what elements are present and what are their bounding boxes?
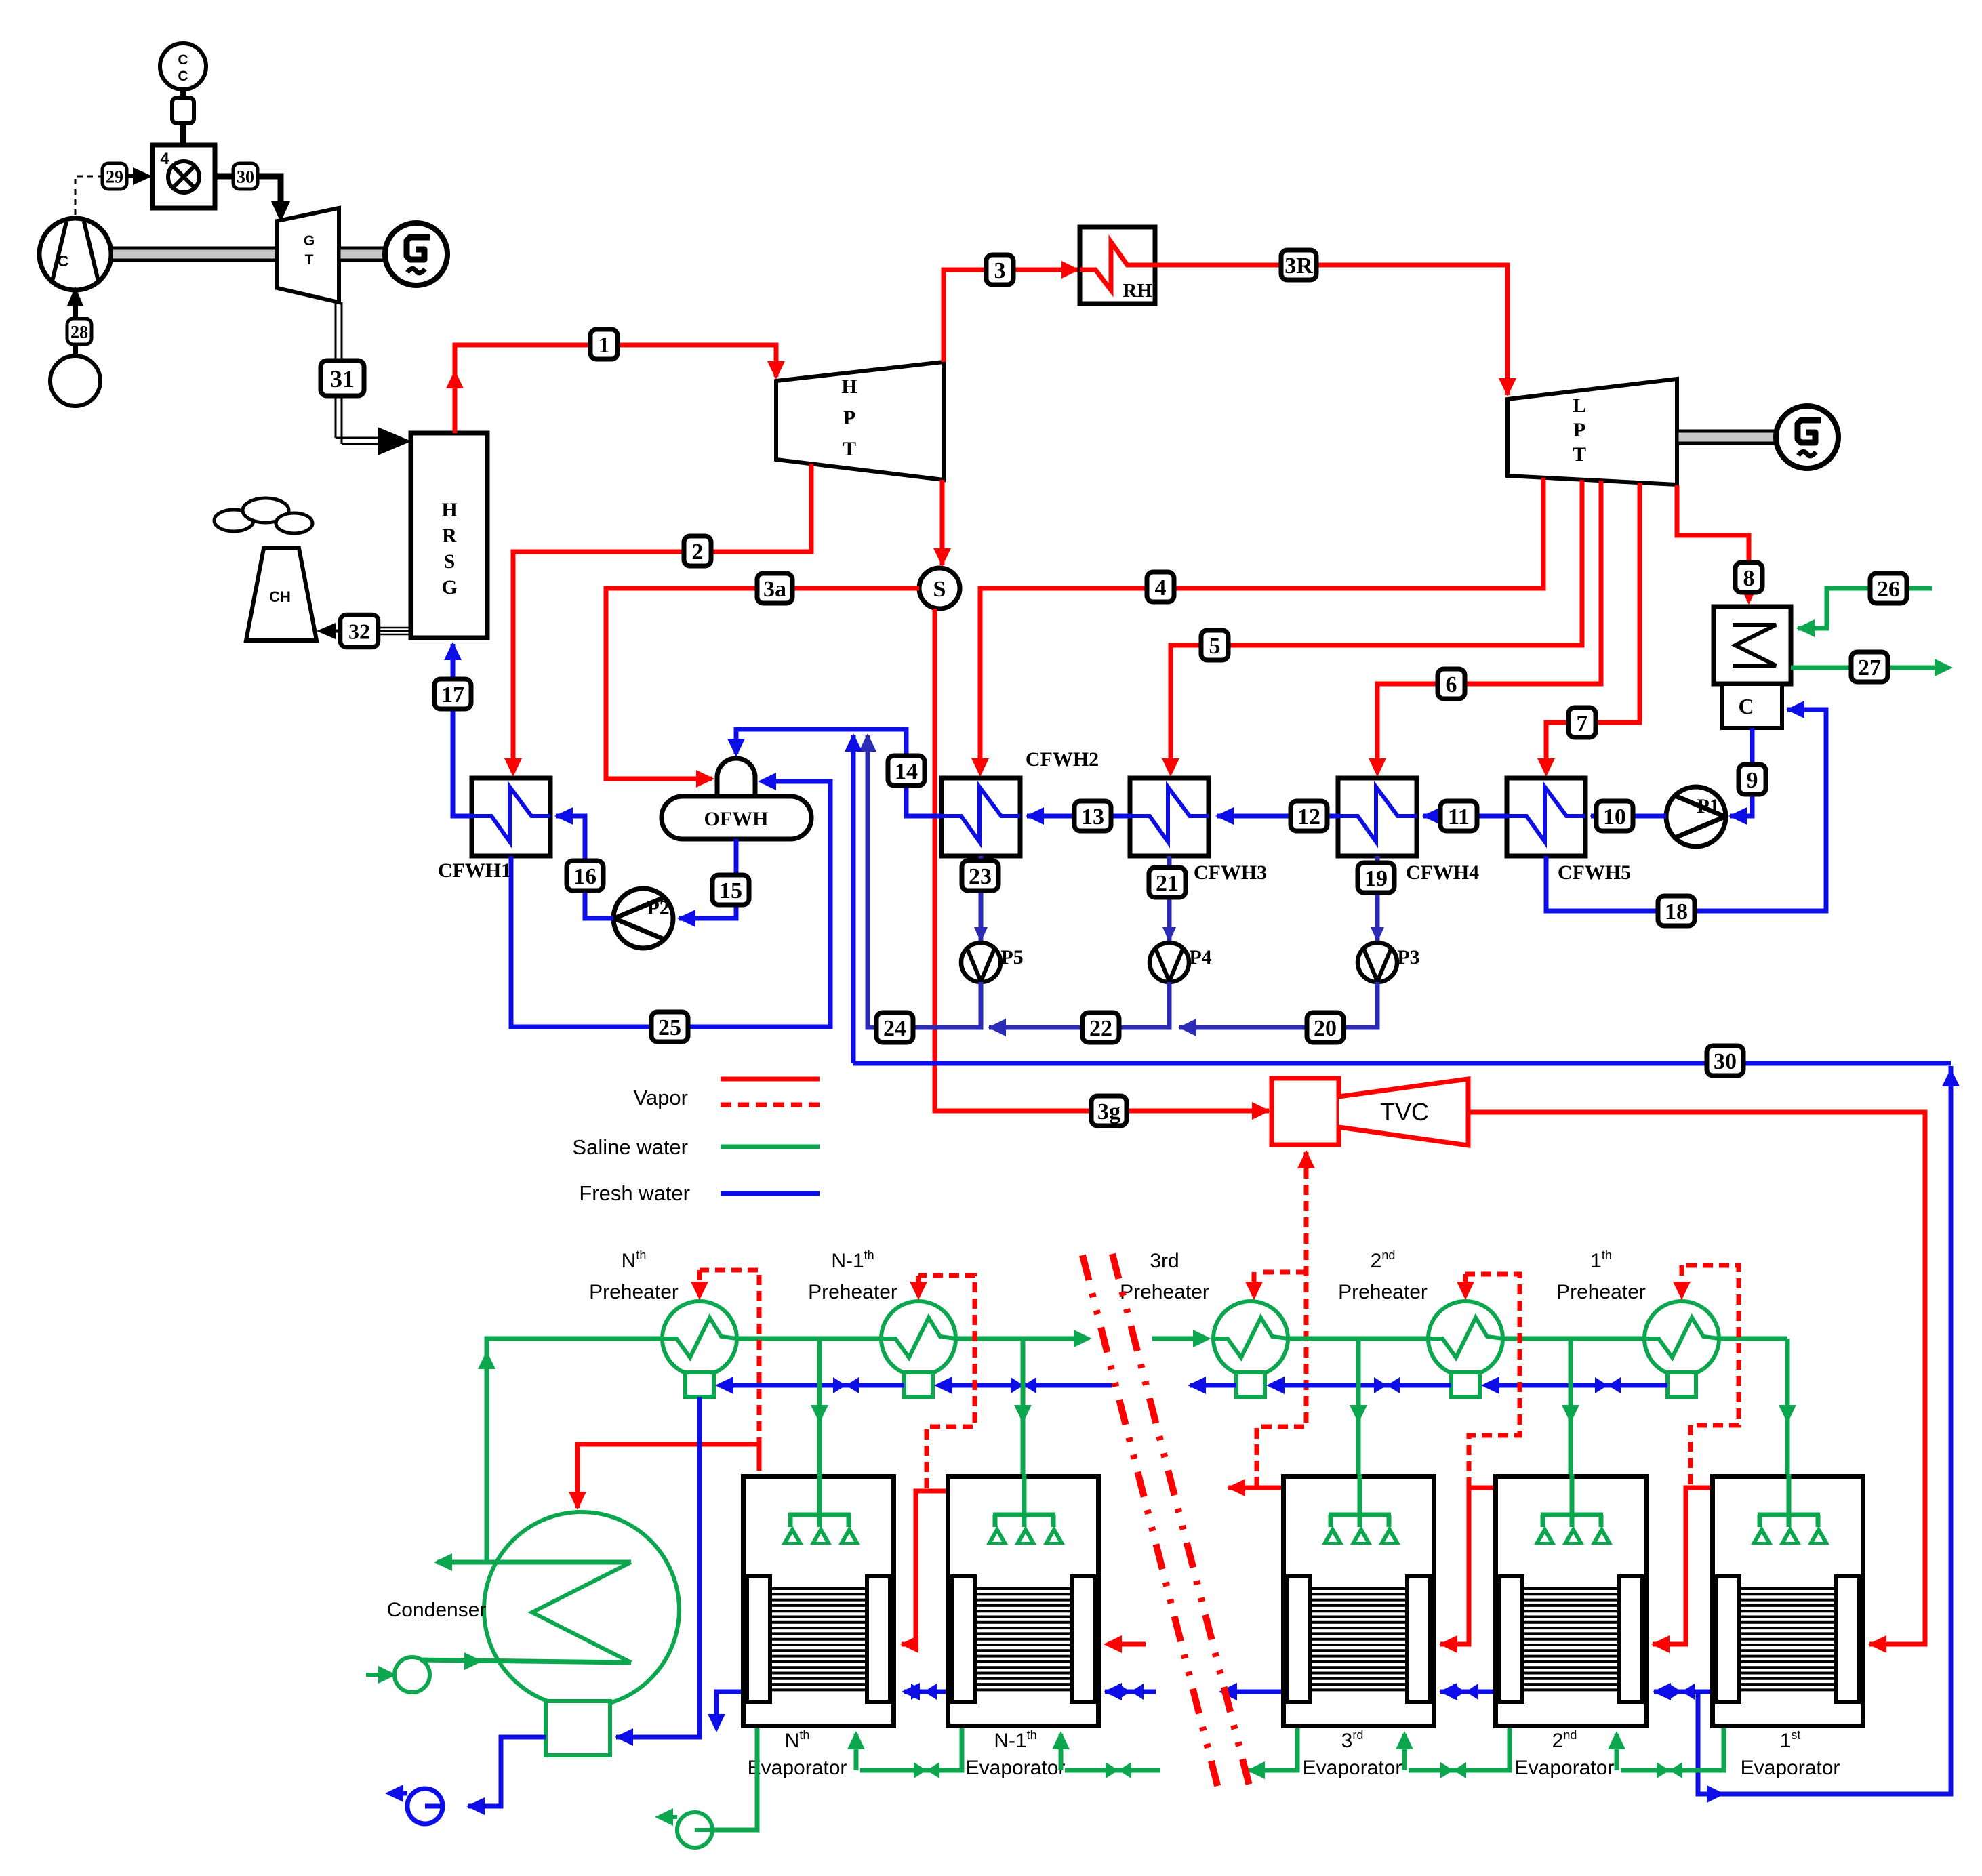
wire P3 to line 20 (1179, 982, 1377, 1027)
svg-text:C: C (178, 52, 188, 68)
svg-text:3rd: 3rd (1150, 1250, 1179, 1272)
arrow into CFWH1 (504, 758, 522, 777)
wire LPT extraction stream 4 (980, 478, 1543, 773)
arrow into OFWH dome (696, 770, 714, 788)
svg-text:13: 13 (1081, 804, 1104, 830)
arrow into CFWH1 (554, 807, 573, 825)
heat exchanger 1st preheater (1644, 1301, 1719, 1376)
svg-text:C: C (58, 252, 69, 270)
condenser neck (546, 1701, 610, 1755)
node 5 (1201, 630, 1228, 660)
node 6 (1438, 669, 1465, 699)
flow arrow seawater right (1074, 1330, 1092, 1347)
svg-text:TVC: TVC (1380, 1098, 1429, 1126)
svg-text:16: 16 (573, 864, 596, 889)
arrow into 3rd preheater (1245, 1282, 1263, 1300)
wire distillate 1st preheater to 2nd preheater (1485, 1383, 1667, 1388)
node 1 (590, 329, 618, 359)
svg-text:R: R (442, 525, 457, 547)
vessel Nth evaporator (744, 1474, 894, 1726)
svg-text:CFWH2: CFWH2 (1026, 748, 1099, 771)
svg-text:P3: P3 (1397, 946, 1419, 968)
svg-text:9: 9 (1747, 768, 1758, 793)
node 12 (1291, 801, 1327, 831)
break line 2 (1112, 1254, 1251, 1793)
wire dashed vapor to N-1th preheater (918, 1276, 975, 1488)
generator G2 (1776, 406, 1838, 468)
wire OFWH to P2 (stream 15) (679, 839, 736, 918)
svg-text:10: 10 (1603, 804, 1626, 830)
gas turbine GT (277, 208, 339, 302)
legend (721, 1077, 820, 1082)
wire feed to Nth evaporator (817, 1339, 822, 1474)
arrow into CFWH3 (1215, 807, 1234, 825)
svg-text:C: C (1738, 694, 1754, 718)
arrow into OFWH dome top (727, 739, 745, 757)
arrow into S (933, 548, 951, 567)
svg-text:12: 12 (1297, 804, 1320, 830)
arrow into RH (1061, 261, 1080, 279)
wire stream 30 return riser (853, 1061, 1951, 1066)
svg-text:2: 2 (692, 539, 704, 565)
arrow into neck (615, 1728, 633, 1746)
vessel 3rd evaporator (1284, 1474, 1434, 1726)
wire stub at 3rd preheater (1213, 1337, 1225, 1341)
wire vapor from break to N-1th evap (1108, 1642, 1146, 1647)
vessel 1st evaporator (1713, 1474, 1863, 1726)
wire feed to 2nd evaporator (1569, 1339, 1573, 1474)
svg-text:CFWH4: CFWH4 (1406, 861, 1479, 884)
valve box 4 with circle-X (153, 145, 215, 208)
svg-text:3: 3 (994, 258, 1006, 283)
combustion chamber CC circle (160, 43, 206, 89)
node 3R (1281, 250, 1316, 280)
svg-text:OFWH: OFWH (704, 808, 769, 830)
stack gas double line HRSG to CH (node 32) (378, 627, 411, 629)
svg-text:6: 6 (1446, 672, 1457, 697)
svg-text:4: 4 (1155, 575, 1167, 600)
pump P5 (961, 943, 1000, 982)
wire HPT to RH (stream 3) (944, 270, 1078, 362)
node 14 (888, 756, 925, 786)
wire seawater Nth to N-1th preheater (725, 1337, 893, 1341)
arrow into valve box (127, 174, 136, 178)
OFWH vessel (717, 758, 755, 798)
node 15 (712, 875, 749, 905)
wire cooling reject out (437, 1560, 631, 1565)
node 7 (1569, 708, 1596, 737)
LPT turbine (1508, 379, 1677, 485)
arrow into hotwell C (1786, 701, 1804, 718)
svg-text:25: 25 (658, 1015, 681, 1040)
intake arrow (378, 1666, 397, 1684)
wire vapor N-1th evap to Nth evap (902, 1491, 946, 1644)
wire brine blowdown from Nth evap (714, 1728, 757, 1830)
valve (1669, 1684, 1695, 1700)
node 2 (684, 536, 711, 566)
TVC ejector (1272, 1078, 1339, 1145)
wire distillate from Nth evap joining (716, 1692, 741, 1728)
wire valve box to GT inlet (215, 174, 233, 180)
arrow into CFWH5 (1590, 807, 1608, 825)
svg-text:31: 31 (330, 365, 355, 392)
wire distillate from break to N-1th (1105, 1690, 1156, 1694)
svg-text:G: G (441, 576, 457, 598)
flow arrow seawater up (478, 1351, 495, 1369)
arrow into 1st preheater (1673, 1282, 1691, 1300)
node 9 (1739, 764, 1766, 794)
MED condenser circle (484, 1512, 679, 1707)
node 19 (1358, 863, 1394, 893)
wire HPT exhaust down to splitter S (940, 480, 945, 565)
node 17 (434, 679, 471, 709)
wire product water to pump (468, 1737, 546, 1806)
arrow into LPT (1499, 378, 1516, 396)
svg-text:CFWH1: CFWH1 (438, 859, 511, 882)
wire CFWH4 drain to P3 (stream 19) (1375, 856, 1380, 941)
node 28 (67, 319, 92, 344)
wire CFWH3 drain to P4 (stream 21) (1167, 856, 1172, 941)
wire LPT extraction stream 5 (1171, 480, 1582, 773)
node 21 (1149, 868, 1186, 897)
shaft compressor-GT (111, 248, 277, 260)
wire brine from break to N-1th (1065, 1768, 1160, 1773)
air intake circle (50, 356, 100, 406)
wire distillate 2nd preheater to 3rd preheater (1270, 1383, 1451, 1388)
node 3a (757, 573, 792, 603)
heat exchanger N-1th preheater (881, 1301, 956, 1376)
wire LPT extraction stream 7 (1546, 483, 1640, 773)
arrow into condenser shell (1796, 619, 1815, 637)
svg-text:P2: P2 (647, 897, 669, 919)
pump seawater intake (395, 1657, 430, 1692)
wire brine 1st evap to 2nd (1621, 1728, 1724, 1770)
svg-text:18: 18 (1665, 899, 1688, 924)
chimney CH (246, 548, 317, 640)
node 23 (962, 861, 998, 891)
node 13 (1074, 801, 1111, 831)
blowdown out arrow (655, 1808, 673, 1826)
wire distillate from break to N-1th preheater (938, 1383, 1112, 1388)
heat exchanger CFWH4 (1338, 778, 1417, 856)
wire CFWH2 exit to header (stream 14) (736, 729, 942, 816)
wire seawater 1st preheater to 1st evap (1707, 1337, 1787, 1341)
node 27 (1851, 652, 1888, 682)
node 22 (1083, 1013, 1119, 1042)
valve (914, 1762, 939, 1778)
wire feed to 3rd evaporator (1356, 1339, 1361, 1474)
vessel N-1th evaporator (948, 1474, 1099, 1726)
svg-text:T: T (843, 438, 856, 460)
svg-text:CFWH5: CFWH5 (1558, 861, 1631, 884)
condenser hotwell C box (1722, 684, 1782, 728)
arrow stream 20 join (1178, 1019, 1196, 1036)
arrow into P2 (677, 910, 695, 927)
GT exhaust double line to HRSG (335, 302, 337, 438)
outlet arrow 27 (1935, 659, 1953, 676)
node 3 (986, 255, 1013, 285)
heat exchanger CFWH5 (1507, 778, 1585, 856)
node 30 (gas) (233, 163, 258, 189)
wire dashed vapor to Nth preheater (700, 1270, 759, 1464)
svg-text:P: P (843, 407, 855, 429)
wire LPT extraction stream 6 (1377, 481, 1601, 773)
svg-text:24: 24 (883, 1016, 906, 1041)
svg-text:32: 32 (348, 619, 370, 644)
wire seawater 3rd to 2nd preheater (1276, 1337, 1440, 1341)
svg-text:23: 23 (969, 864, 992, 889)
wire fresh water from Nth preheater to neck (616, 1397, 700, 1737)
wire vapor Nth evap to MED condenser (578, 1444, 759, 1508)
wire P2 to CFWH1 (stream 16) (556, 816, 613, 918)
arrow up into TVC (1297, 1150, 1315, 1168)
svg-text:P5: P5 (1000, 946, 1023, 968)
arrow into HRSG (444, 642, 462, 660)
wire LPT exhaust stream 8 to condenser (1677, 485, 1749, 601)
wire distillate N-1th preheater to Nth preheater (719, 1383, 904, 1388)
svg-text:3g: 3g (1097, 1099, 1120, 1124)
svg-text:P4: P4 (1189, 946, 1211, 968)
svg-text:15: 15 (719, 878, 742, 903)
HRSG box (411, 433, 487, 638)
reject to sea arrow (434, 1553, 452, 1571)
svg-text:T: T (305, 252, 314, 268)
air inlet node 28 line (67, 287, 83, 306)
HPT turbine (776, 362, 944, 480)
wire brine N-1th evap to Nth (860, 1728, 962, 1770)
svg-text:Preheater: Preheater (1120, 1281, 1209, 1303)
node 31 (321, 361, 364, 396)
reheater RH box (1080, 227, 1155, 304)
node 8 (1735, 563, 1762, 592)
svg-text:28: 28 (70, 322, 88, 342)
break line 1 (1083, 1255, 1220, 1796)
splitter S (919, 568, 960, 609)
product out arrow (385, 1785, 403, 1802)
wire stream 3a to OFWH (606, 588, 919, 779)
node 32 (340, 615, 378, 647)
svg-text:S: S (444, 550, 456, 573)
node 4 (1147, 572, 1174, 602)
valve (1118, 1684, 1144, 1700)
arrow stream 30 into header (845, 733, 862, 752)
wire cooling water outlet 27 (saline) (1791, 666, 1947, 670)
wire HRSG steam riser to line 1 (455, 345, 776, 433)
valve (1106, 1762, 1131, 1778)
fuel small box (172, 98, 194, 123)
svg-text:17: 17 (441, 682, 464, 708)
wire product riser stream 30 (1698, 1066, 1951, 1794)
svg-text:Preheater: Preheater (1556, 1281, 1646, 1303)
wire CFWH5 to CFWH4 (stream 11) (1423, 814, 1507, 819)
arrow into CFWH2 (971, 758, 989, 777)
valve (1440, 1762, 1466, 1778)
svg-text:P: P (1573, 419, 1585, 441)
wire vapor 3rd evap toward break (1228, 1486, 1281, 1490)
wire distillate N-1th to Nth (904, 1690, 946, 1694)
svg-text:11: 11 (1448, 804, 1470, 830)
svg-text:30: 30 (237, 167, 254, 186)
valve (1011, 1377, 1036, 1393)
svg-text:RH: RH (1123, 280, 1152, 302)
generator G1 (385, 223, 447, 285)
wire dashed vapor tap to 3rd preheater (1255, 1430, 1259, 1488)
wire P1 to CFWH5 (stream 10) (1591, 814, 1666, 819)
svg-text:14: 14 (895, 759, 918, 784)
wire CFWH5 drain loop stream 18 to hotwell (1546, 710, 1826, 911)
svg-text:7: 7 (1577, 711, 1588, 736)
wire HPT extraction stream 2 (513, 464, 811, 773)
svg-text:21: 21 (1156, 871, 1179, 896)
wire P5 to line 24 riser (868, 735, 981, 1027)
wire brine 3rd evap toward break (1248, 1728, 1297, 1770)
wire distillate 3rd preheater toward break (1190, 1383, 1236, 1388)
svg-text:Saline water: Saline water (572, 1135, 688, 1159)
wire fuel box to valve box (180, 123, 186, 146)
wire cooling water inlet 26 (saline) (1798, 588, 1932, 628)
valve (833, 1377, 859, 1393)
brine up into 3rd evap (1396, 1731, 1413, 1749)
valve (911, 1684, 937, 1700)
arrow into CFWH3 (1162, 758, 1179, 777)
wire dashed vapor to 2nd preheater (1465, 1274, 1520, 1488)
svg-text:L: L (1573, 394, 1586, 417)
svg-text:Evaporator: Evaporator (748, 1757, 847, 1779)
svg-text:Preheater: Preheater (1338, 1281, 1428, 1303)
smoke puffs (214, 510, 254, 531)
wire dashed vapor to 1st preheater (1682, 1265, 1739, 1484)
svg-text:Preheater: Preheater (589, 1281, 679, 1303)
svg-text:CFWH3: CFWH3 (1194, 861, 1267, 884)
svg-text:8: 8 (1743, 566, 1755, 591)
node 25 (651, 1012, 688, 1042)
node 16 (567, 861, 603, 891)
condenser (steam) box (1714, 607, 1791, 684)
svg-text:1: 1 (599, 333, 610, 358)
svg-text:H: H (841, 375, 857, 398)
node 11 (1440, 801, 1477, 831)
compressor C (39, 218, 111, 290)
arrow into Nth preheater (691, 1282, 708, 1300)
svg-text:5: 5 (1209, 634, 1221, 659)
svg-text:Evaporator: Evaporator (1303, 1757, 1402, 1779)
arrow steam into 1st evaporator (1868, 1635, 1886, 1653)
wire dashed vapor from Nth evap top (757, 1444, 762, 1474)
svg-text:Evaporator: Evaporator (966, 1757, 1066, 1779)
brine up into Nth evap (847, 1731, 865, 1749)
svg-text:26: 26 (1877, 577, 1900, 602)
node 3g (1091, 1096, 1127, 1126)
arrow into N-1th preheater (910, 1282, 927, 1300)
wire seawater N-1th preheater to break (944, 1337, 1076, 1341)
brine up into 2nd evap (1608, 1731, 1625, 1749)
wire intake pump to condenser coil (420, 1660, 631, 1663)
arrow into CFWH5 (1537, 758, 1555, 777)
svg-text:C: C (178, 68, 188, 84)
node 29 (102, 163, 127, 189)
heat exchanger CFWH3 (1130, 778, 1209, 856)
svg-text:H: H (441, 499, 457, 521)
pump P1 (1666, 787, 1726, 847)
svg-text:30: 30 (1714, 1049, 1737, 1074)
wire CFWH2 drain to P5 (stream 23) (979, 856, 984, 941)
svg-text:4: 4 (160, 150, 169, 168)
node 10 (1596, 801, 1633, 831)
pump brine blowdown (677, 1812, 712, 1848)
svg-text:G: G (304, 233, 315, 249)
svg-text:Condenser: Condenser (387, 1599, 487, 1621)
wire seawater from break to 3rd preheater (1152, 1337, 1194, 1341)
pump P3 (1358, 943, 1397, 982)
pump P4 (1150, 943, 1189, 982)
wire RH to LPT (stream 3R) (1155, 265, 1508, 395)
wire S down to 3g / TVC (935, 609, 1269, 1111)
arrow into MED condenser (569, 1492, 586, 1510)
arrow into 2nd preheater (1457, 1282, 1474, 1300)
wire distillate 3rd evap toward break (1223, 1690, 1281, 1694)
wire vapor 2nd evap to 3rd evap (1440, 1488, 1493, 1644)
svg-text:S: S (933, 577, 946, 602)
svg-text:CH: CH (269, 588, 291, 605)
svg-text:P1: P1 (1697, 795, 1719, 817)
wire CFWH1 drain loop stream 25 to OFWH (511, 781, 830, 1027)
wire feed to N-1th evaporator (1021, 1339, 1026, 1474)
wire CFWH3 to CFWH2 (stream 13) (1027, 814, 1130, 819)
node 20 (1307, 1013, 1343, 1042)
svg-text:Fresh water: Fresh water (579, 1181, 690, 1205)
arrow into P1 (1728, 807, 1747, 825)
flow arrow into 3rd preheater (1193, 1330, 1211, 1347)
arrow stream 24 into header (859, 733, 876, 752)
svg-text:T: T (1573, 443, 1586, 466)
arrow into TVC (1252, 1102, 1270, 1120)
svg-text:29: 29 (106, 167, 123, 186)
shaft LPT-generator (1677, 431, 1776, 443)
heat exchanger 3rd preheater (1213, 1301, 1288, 1376)
valve (1657, 1762, 1682, 1778)
brine up into N-1th evap (1052, 1731, 1070, 1749)
pump fresh water product (407, 1789, 443, 1824)
node 24 (876, 1013, 913, 1042)
wire seawater main to preheaters (487, 1339, 674, 1562)
heat exchanger CFWH1 (472, 778, 550, 856)
pump P2 (613, 889, 673, 948)
svg-text:27: 27 (1858, 655, 1881, 680)
svg-text:22: 22 (1089, 1016, 1112, 1041)
svg-text:Evaporator: Evaporator (1515, 1757, 1615, 1779)
wire P4 to line 22 (989, 982, 1169, 1027)
svg-text:3a: 3a (763, 577, 786, 602)
node 26 (1870, 573, 1907, 603)
valve (1374, 1377, 1400, 1393)
wire TVC motive outlet to 1st evaporator (1468, 1112, 1925, 1644)
node 30 (1707, 1046, 1743, 1076)
arrow into CFWH4 (1422, 807, 1440, 825)
svg-text:Vapor: Vapor (634, 1086, 688, 1109)
heat exchanger 2nd preheater (1428, 1301, 1503, 1376)
svg-text:Preheater: Preheater (808, 1281, 897, 1303)
svg-text:19: 19 (1364, 866, 1388, 891)
wire distillate 1st to 2nd (1654, 1690, 1710, 1694)
arrow into condenser (1740, 586, 1758, 605)
shaft GT-generator (339, 248, 386, 260)
vessel 2nd evaporator (1496, 1474, 1646, 1726)
svg-text:Evaporator: Evaporator (1741, 1757, 1840, 1779)
arrow into OFWH dome right (758, 773, 776, 790)
flow arrow stream 1 up (446, 370, 464, 388)
valve (1453, 1684, 1478, 1700)
svg-text:20: 20 (1314, 1016, 1337, 1041)
